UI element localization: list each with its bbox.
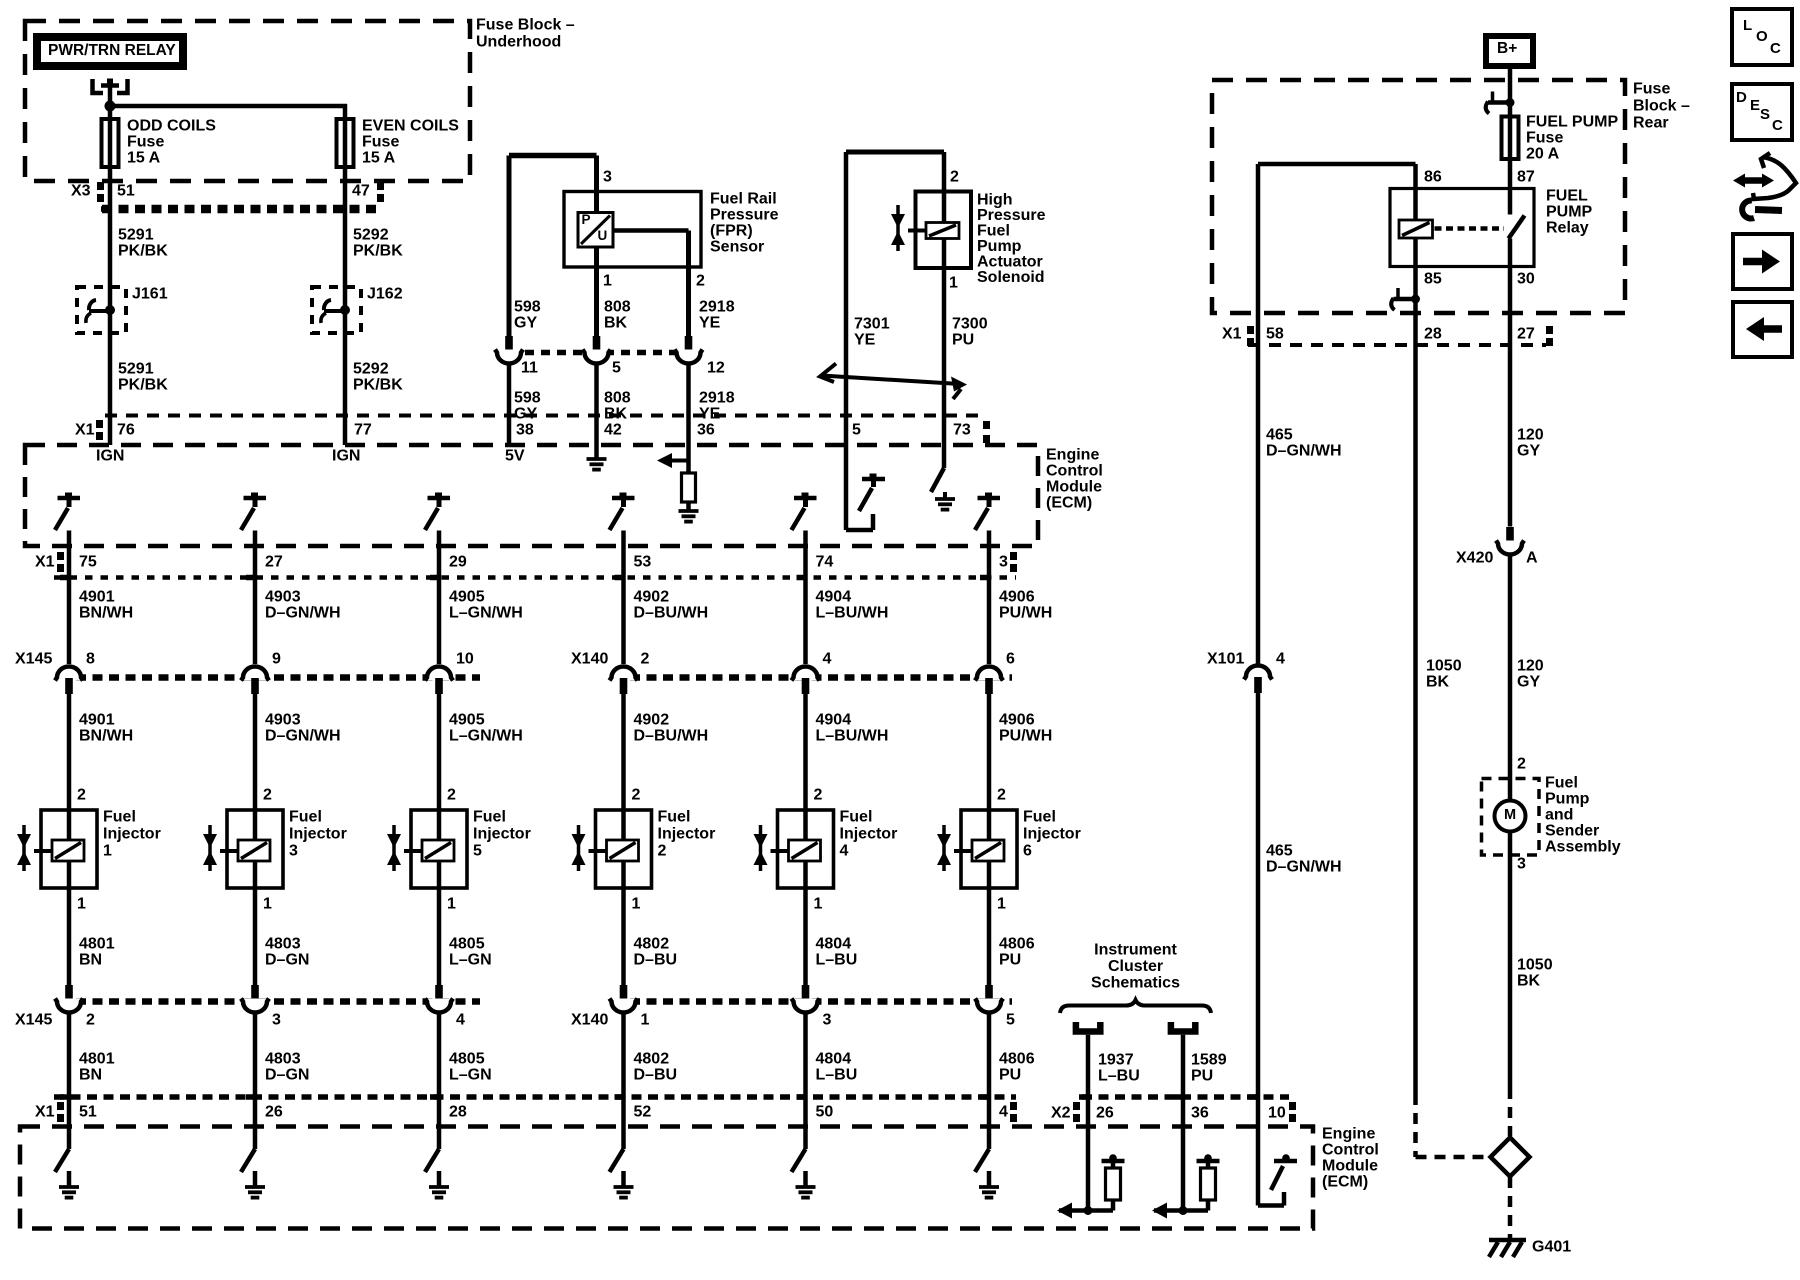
fuel injector 6: [937, 810, 1017, 888]
svg-text:5292: 5292: [353, 227, 389, 244]
svg-text:4903: 4903: [265, 712, 301, 729]
svg-text:86: 86: [1424, 169, 1442, 186]
splice J161: [77, 287, 126, 333]
svg-text:3: 3: [823, 1012, 832, 1029]
svg-text:Underhood: Underhood: [476, 34, 561, 51]
label J162: [367, 286, 403, 303]
svg-text:4804: 4804: [816, 1051, 852, 1068]
wire 4901 BN/WH mid: [67, 694, 72, 810]
svg-text:Fuse: Fuse: [1526, 130, 1563, 147]
icon LOC: [1732, 9, 1792, 65]
pin 1 label injector 4: [814, 896, 823, 913]
ECM low-side driver 3: [425, 1149, 449, 1198]
ECM pin 73 internal switch to ground: [931, 445, 955, 510]
svg-text:EVEN COILS: EVEN COILS: [362, 118, 459, 135]
svg-text:2: 2: [658, 843, 667, 860]
label X3: [71, 183, 91, 200]
svg-text:C: C: [1772, 117, 1783, 134]
svg-text:4806: 4806: [999, 1051, 1035, 1068]
label even coils fuse: [362, 118, 459, 167]
svg-text:4904: 4904: [816, 589, 852, 606]
pin 6 label: [1006, 651, 1015, 668]
svg-text:and: and: [1545, 807, 1573, 824]
svg-text:52: 52: [634, 1104, 652, 1121]
svg-text:D: D: [1736, 89, 1747, 106]
label Fuel Injector 3: [289, 809, 347, 860]
pin 28: [1424, 326, 1442, 343]
pin 42: [604, 422, 622, 439]
svg-text:2: 2: [641, 651, 650, 668]
svg-text:75: 75: [79, 554, 97, 571]
wire 1589 PU: [1174, 1035, 1183, 1211]
svg-text:4903: 4903: [265, 589, 301, 606]
pin 38: [516, 422, 534, 439]
label fuel pump fuse: [1526, 114, 1618, 163]
connector X101: [1244, 666, 1272, 694]
svg-text:76: 76: [117, 422, 135, 439]
label fuse block rear: [1633, 81, 1690, 132]
pin 73: [953, 422, 971, 439]
svg-text:J161: J161: [132, 286, 168, 303]
svg-text:4804: 4804: [816, 936, 852, 953]
svg-text:4902: 4902: [634, 712, 670, 729]
svg-text:4801: 4801: [79, 1051, 115, 1068]
svg-text:B+: B+: [1497, 40, 1517, 57]
svg-text:36: 36: [1191, 1105, 1209, 1122]
svg-text:1: 1: [641, 1012, 650, 1029]
svg-text:FUEL PUMP: FUEL PUMP: [1526, 114, 1618, 131]
label X140: [571, 651, 608, 668]
wire 7301 YE top loop: [846, 152, 944, 445]
label 4804 L–BU: [816, 936, 858, 969]
svg-text:Sender: Sender: [1545, 823, 1599, 840]
svg-text:50: 50: [816, 1104, 834, 1121]
svg-text:PK/BK: PK/BK: [118, 243, 168, 260]
label 2918 YE: [699, 299, 735, 332]
label 808 BK: [604, 299, 631, 332]
splice J162: [312, 287, 361, 333]
svg-text:4802: 4802: [634, 936, 670, 953]
svg-text:Fuel: Fuel: [977, 223, 1010, 240]
svg-text:PWR/TRN RELAY: PWR/TRN RELAY: [48, 42, 176, 59]
solenoid coil stub: [908, 229, 926, 233]
svg-text:X1: X1: [1222, 326, 1242, 343]
svg-text:15 A: 15 A: [362, 150, 396, 167]
svg-text:1: 1: [814, 896, 823, 913]
svg-text:5292: 5292: [353, 361, 389, 378]
pin 5 label: [612, 360, 621, 377]
label High Pressure Fuel Pump Actuator Solenoid: [977, 192, 1046, 287]
svg-text:1: 1: [263, 896, 272, 913]
dashed ground wire left: [1416, 1094, 1490, 1157]
FUEL PUMP relay box: [1390, 189, 1534, 267]
svg-text:IGN: IGN: [96, 448, 124, 465]
svg-text:BK: BK: [1517, 973, 1541, 990]
svg-text:28: 28: [449, 1104, 467, 1121]
connector X1 row (injector outputs): [54, 552, 1017, 578]
svg-text:L–BU/WH: L–BU/WH: [816, 728, 889, 745]
pin 11 label: [521, 360, 538, 377]
icon vehicle double-arrow: [1733, 153, 1796, 199]
svg-text:5: 5: [612, 360, 621, 377]
svg-text:IGN: IGN: [332, 448, 360, 465]
connector pin 5 row2: [975, 985, 1003, 1013]
svg-text:29: 29: [449, 554, 467, 571]
svg-text:1: 1: [103, 843, 112, 860]
svg-text:(ECM): (ECM): [1322, 1174, 1368, 1191]
svg-text:3: 3: [1517, 856, 1526, 873]
pin 8 label: [86, 651, 95, 668]
cluster connector 1: [1076, 1022, 1100, 1032]
connector pin 10 row1: [425, 667, 453, 695]
pin 2 label injector 4: [814, 787, 823, 804]
pin 77: [354, 422, 372, 439]
svg-text:Injector: Injector: [103, 826, 161, 843]
icon DESC: [1732, 84, 1792, 140]
fuel injector 5: [387, 810, 467, 888]
pin 75: [79, 554, 97, 571]
svg-text:120: 120: [1517, 427, 1544, 444]
ECM input circuit (pin 36): [1152, 1154, 1220, 1218]
svg-text:PU: PU: [999, 952, 1021, 969]
svg-text:Injector: Injector: [840, 826, 898, 843]
svg-text:20 A: 20 A: [1526, 146, 1560, 163]
svg-text:4803: 4803: [265, 936, 301, 953]
svg-text:8: 8: [86, 651, 95, 668]
wire 120 GY to pump: [1508, 553, 1513, 801]
svg-text:120: 120: [1517, 658, 1544, 675]
pin 12 label: [707, 360, 725, 377]
pin 76: [117, 422, 135, 439]
pin 50 bottom: [816, 1104, 834, 1121]
connector pin 9 row1: [241, 667, 269, 695]
ECM low-side driver 6: [975, 1149, 999, 1198]
svg-text:26: 26: [1096, 1105, 1114, 1122]
svg-text:D–BU/WH: D–BU/WH: [634, 728, 709, 745]
svg-text:BK: BK: [604, 315, 628, 332]
wire relay 86 feed: [1258, 164, 1416, 267]
connector pin 3 row2: [241, 985, 269, 1013]
svg-text:BN/WH: BN/WH: [79, 605, 133, 622]
connector pin 2 row1: [610, 667, 638, 695]
label G401: [1532, 1239, 1571, 1256]
relay switch blade: [1509, 216, 1525, 239]
svg-text:D–BU/WH: D–BU/WH: [634, 605, 709, 622]
svg-text:85: 85: [1424, 271, 1442, 288]
svg-text:L–BU: L–BU: [1098, 1068, 1140, 1085]
svg-text:1: 1: [603, 273, 612, 290]
pin 2 label injector 3: [263, 787, 272, 804]
svg-text:2: 2: [997, 787, 1006, 804]
label 4801 BN: [79, 936, 115, 969]
svg-text:27: 27: [1517, 326, 1535, 343]
label 4803 D–GN: [265, 936, 309, 969]
svg-text:598: 598: [514, 390, 541, 407]
svg-text:Pressure: Pressure: [710, 207, 779, 224]
solenoid pin 1 label: [949, 275, 958, 292]
svg-text:1050: 1050: [1426, 658, 1462, 675]
fuse EVEN COILS 15A: [337, 119, 354, 167]
pin 85 label: [1424, 271, 1442, 288]
svg-text:4: 4: [999, 1104, 1008, 1121]
pin 30 label: [1517, 271, 1535, 288]
svg-text:Engine: Engine: [1322, 1126, 1375, 1143]
wire 4905 L–GN/WH mid: [437, 694, 442, 810]
injector driver 1: [55, 493, 80, 531]
svg-text:X1: X1: [75, 422, 95, 439]
svg-text:X140: X140: [571, 1012, 608, 1029]
ECM input circuit (pin 26): [1057, 1154, 1125, 1218]
svg-text:Injector: Injector: [473, 826, 531, 843]
svg-text:4906: 4906: [999, 712, 1035, 729]
svg-text:4904: 4904: [816, 712, 852, 729]
wire relay 85 down: [1413, 267, 1418, 1095]
svg-text:(FPR): (FPR): [710, 223, 753, 240]
svg-text:1: 1: [997, 896, 1006, 913]
label 4904 L–BU/WH: [816, 589, 889, 622]
sheet-crossing arrow: [820, 364, 967, 400]
svg-text:Module: Module: [1322, 1158, 1378, 1175]
label X145 row2: [15, 1012, 52, 1029]
fuel injector 1: [17, 810, 97, 888]
label 7301 YE: [854, 316, 890, 349]
svg-text:5291: 5291: [118, 361, 154, 378]
svg-text:Pump: Pump: [1545, 791, 1590, 808]
label 7300 PU: [952, 316, 988, 349]
svg-text:X140: X140: [571, 651, 608, 668]
svg-text:4: 4: [840, 843, 849, 860]
wire FPR pin 3: [594, 156, 599, 214]
fuel injector 3: [203, 810, 283, 888]
svg-text:Block –: Block –: [1633, 98, 1690, 115]
svg-text:2: 2: [1517, 756, 1526, 773]
pin 2 label: [696, 273, 705, 290]
label X1: [75, 422, 95, 439]
solenoid wire through: [942, 152, 947, 445]
pin 29: [449, 554, 467, 571]
pin 51 bottom: [79, 1104, 97, 1121]
svg-text:1050: 1050: [1517, 957, 1553, 974]
pin 4 label: [823, 651, 832, 668]
svg-text:3: 3: [603, 169, 612, 186]
label Engine Control Module (ECM) bottom: [1322, 1126, 1379, 1191]
ECM low-side driver 2: [241, 1149, 265, 1198]
svg-text:4805: 4805: [449, 1051, 485, 1068]
connector X1 row (ECM top): [96, 416, 990, 444]
svg-text:28: 28: [1424, 326, 1442, 343]
svg-text:GY: GY: [1517, 674, 1540, 691]
label 1937 L-BU: [1098, 1052, 1140, 1085]
label 5292 PK/BK lower: [353, 361, 403, 394]
pin 1 label injector 3: [263, 896, 272, 913]
svg-text:X1: X1: [35, 1104, 55, 1121]
pin A label: [1526, 550, 1538, 567]
ground G401: [1489, 1240, 1526, 1257]
svg-text:J162: J162: [367, 286, 403, 303]
svg-text:BN/WH: BN/WH: [79, 728, 133, 745]
connector pin 8 row1: [55, 667, 83, 695]
label X101: [1207, 651, 1244, 668]
svg-text:4905: 4905: [449, 589, 485, 606]
svg-text:Injector: Injector: [658, 826, 716, 843]
injector driver 4: [610, 493, 635, 531]
svg-text:Relay: Relay: [1546, 220, 1589, 237]
wire 465 D-GN/WH lower: [1249, 693, 1258, 1131]
label odd coils fuse: [127, 118, 216, 167]
wire 598 GY loop top: [509, 156, 597, 337]
svg-text:D–GN/WH: D–GN/WH: [1266, 859, 1342, 876]
svg-text:X420: X420: [1456, 550, 1493, 567]
label 4903 D–GN/WH mid: [265, 712, 341, 745]
svg-text:D–GN: D–GN: [265, 1067, 309, 1084]
label 4801 BN lower: [79, 1051, 115, 1084]
junction node: [105, 101, 116, 112]
svg-text:Fuel: Fuel: [658, 809, 691, 826]
wire 4906 PU/WH upper: [980, 531, 989, 665]
pin 2 label injector 1: [77, 787, 86, 804]
pin 27: [265, 554, 283, 571]
gang ground diamond: [1491, 1138, 1530, 1177]
relay coil: [1399, 220, 1433, 238]
svg-text:4906: 4906: [999, 589, 1035, 606]
svg-text:Injector: Injector: [289, 826, 347, 843]
svg-text:51: 51: [79, 1104, 97, 1121]
svg-text:4: 4: [456, 1012, 465, 1029]
label 4903 D–GN/WH: [265, 589, 341, 622]
svg-text:1: 1: [949, 275, 958, 292]
svg-text:D–GN/WH: D–GN/WH: [265, 728, 341, 745]
svg-text:High: High: [977, 192, 1013, 209]
pin 1 label injector 2: [632, 896, 641, 913]
pin 1 label row2: [641, 1012, 650, 1029]
svg-text:77: 77: [354, 422, 372, 439]
wire 4901 BN/WH upper: [60, 531, 69, 665]
dashed ground wire right: [1508, 1088, 1513, 1136]
svg-text:YE: YE: [854, 332, 876, 349]
label 4805 L–GN lower: [449, 1051, 492, 1084]
svg-text:Fuel: Fuel: [840, 809, 873, 826]
svg-text:2: 2: [86, 1012, 95, 1029]
solenoid pin 2 label: [950, 169, 959, 186]
svg-text:4: 4: [823, 651, 832, 668]
svg-text:FUEL: FUEL: [1546, 188, 1588, 205]
svg-text:S: S: [1760, 106, 1770, 123]
svg-text:1937: 1937: [1098, 1052, 1134, 1069]
label 465 D-GN/WH lower: [1266, 843, 1342, 876]
fuse ODD COILS 15A: [102, 119, 119, 167]
label 5292 PK/BK: [353, 227, 403, 260]
wire junction down to odd coils fuse: [108, 106, 113, 119]
connector pin 1 row2: [610, 985, 638, 1013]
svg-text:P: P: [582, 212, 591, 227]
label IGN: [332, 448, 360, 465]
wire 4902 D–BU/WH mid: [621, 694, 626, 810]
svg-text:2: 2: [632, 787, 641, 804]
svg-text:D–BU: D–BU: [634, 952, 678, 969]
svg-text:38: 38: [516, 422, 534, 439]
svg-text:2: 2: [77, 787, 86, 804]
label Fuel Injector 5: [473, 809, 531, 860]
svg-text:Rear: Rear: [1633, 115, 1669, 132]
fuse FUEL PUMP 20A: [1502, 117, 1519, 160]
svg-text:PU: PU: [999, 1067, 1021, 1084]
svg-text:465: 465: [1266, 843, 1293, 860]
inline connector row (11/5/12): [509, 350, 689, 356]
label 4806 PU: [999, 936, 1035, 969]
label 598 GY: [514, 299, 541, 332]
svg-text:808: 808: [604, 390, 631, 407]
svg-text:X1: X1: [35, 554, 55, 571]
pin 27: [1517, 326, 1535, 343]
brace: [1060, 1000, 1211, 1013]
pin 2 label injector 6: [997, 787, 1006, 804]
svg-text:27: 27: [265, 554, 283, 571]
label 4901 BN/WH: [79, 589, 133, 622]
svg-text:L–BU/WH: L–BU/WH: [816, 605, 889, 622]
svg-text:L: L: [1743, 17, 1752, 34]
label Fuel Pump and Sender Assembly: [1545, 775, 1621, 856]
svg-text:4802: 4802: [634, 1051, 670, 1068]
connector pin 4 row2: [425, 985, 453, 1013]
pin 3 label row2: [823, 1012, 832, 1029]
label X1 rear: [1222, 326, 1242, 343]
svg-text:9: 9: [272, 651, 281, 668]
wire 465 D-GN/WH: [1256, 164, 1261, 666]
wire 598 GY lower: [507, 363, 512, 445]
svg-text:51: 51: [117, 183, 135, 200]
svg-text:Pressure: Pressure: [977, 207, 1046, 224]
FPR sensor box: [564, 192, 701, 268]
svg-text:Fuel: Fuel: [1023, 809, 1056, 826]
wire 5292 PK/BK upper: [336, 167, 345, 445]
label 4803 D–GN lower: [265, 1051, 309, 1084]
label Fuel Rail Pressure (FPR) Sensor: [710, 191, 779, 256]
dashed wire to G401: [1508, 1177, 1513, 1238]
wire 4804 L–BU lower: [797, 1012, 806, 1149]
relay 85 clip: [1391, 288, 1420, 310]
label Fuel Injector 2: [658, 809, 716, 860]
label 1050 BK lower: [1517, 957, 1553, 990]
connector X420: [1496, 527, 1524, 555]
svg-text:26: 26: [265, 1104, 283, 1121]
svg-text:PUMP: PUMP: [1546, 204, 1593, 221]
svg-text:PK/BK: PK/BK: [353, 377, 403, 394]
label 4905 L–GN/WH: [449, 589, 523, 622]
HP fuel pump actuator solenoid box: [916, 192, 972, 269]
wire 4903 D–GN/WH upper: [246, 531, 255, 665]
wire B+ to fuse: [1508, 69, 1513, 117]
label Fuel Injector 4: [840, 809, 898, 860]
svg-text:Fuse: Fuse: [362, 134, 399, 151]
ECM low-side driver 5: [792, 1149, 816, 1198]
pin 3: [999, 554, 1008, 571]
pin 36 X2: [1191, 1105, 1209, 1122]
svg-text:BK: BK: [1426, 674, 1450, 691]
fuel injector 2: [572, 810, 652, 888]
svg-text:Pump: Pump: [977, 238, 1022, 255]
svg-text:Fuel Rail: Fuel Rail: [710, 191, 777, 208]
svg-text:D–GN/WH: D–GN/WH: [1266, 443, 1342, 460]
label 808 BK lower: [604, 390, 631, 423]
wire 1937 L-BU: [1079, 1035, 1088, 1211]
ECM pin 10 internal driver: [1258, 1131, 1297, 1206]
svg-text:808: 808: [604, 299, 631, 316]
PWR/TRN RELAY label box: [37, 37, 183, 66]
wire 2918 YE (pin 2): [686, 231, 691, 337]
label 4906 PU/WH: [999, 589, 1052, 622]
connector 12: [675, 336, 703, 364]
pin 4 bottom: [999, 1104, 1008, 1121]
